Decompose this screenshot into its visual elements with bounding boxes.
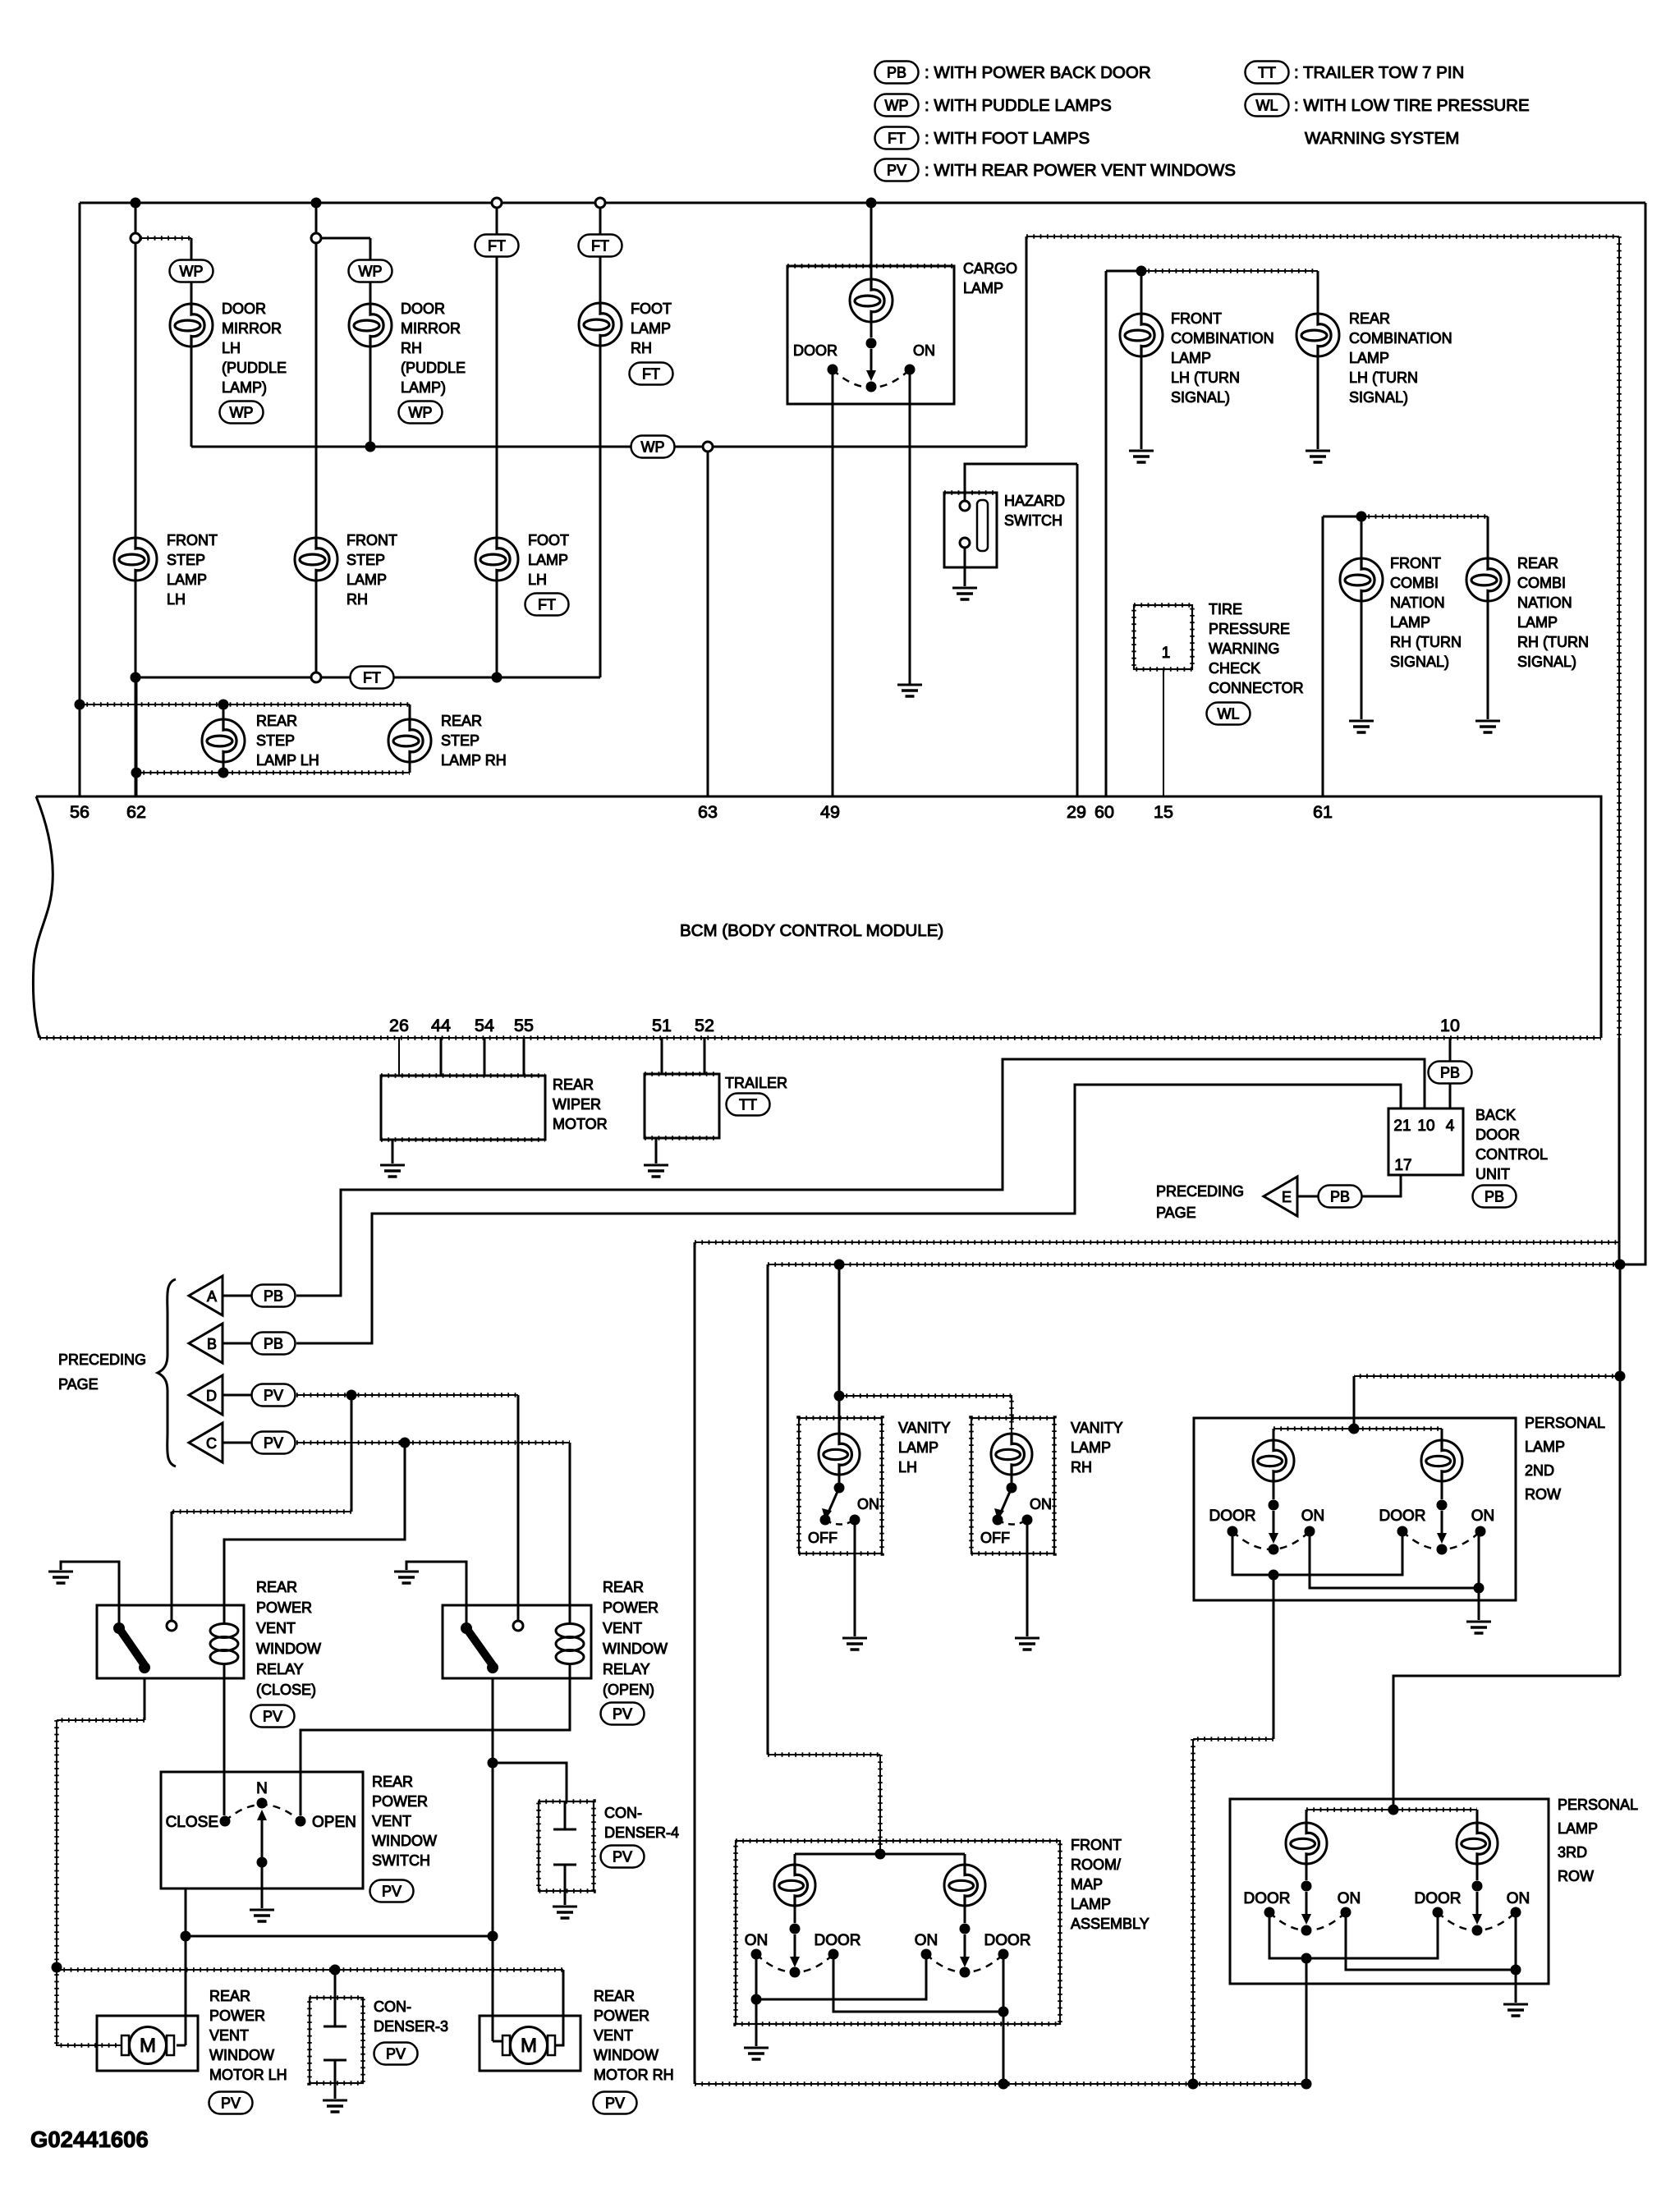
junction top bus x165	[131, 198, 141, 209]
arc 2nd left	[1232, 1531, 1310, 1549]
lamp front combination RH	[1340, 558, 1383, 601]
wire front step RH lower	[315, 581, 318, 672]
svg-text:(CLOSE): (CLOSE)	[256, 1682, 316, 1698]
svg-text:REAR: REAR	[256, 1579, 297, 1595]
ground front comb LH	[1129, 451, 1154, 462]
label vanity RH OFF	[980, 1530, 1010, 1546]
junction front room DOOR rail	[998, 2079, 1009, 2090]
svg-text:DOOR: DOOR	[815, 1932, 861, 1949]
junction rear step bottom LH	[218, 768, 229, 778]
ground trailer	[644, 1165, 668, 1177]
ground vanity RH	[1015, 1638, 1039, 1650]
contact N	[257, 1798, 268, 1809]
legend text with power back door	[925, 63, 1151, 82]
junction 2nd DOOR out	[1269, 1570, 1279, 1581]
svg-text:REAR: REAR	[372, 1774, 413, 1790]
svg-text:RH: RH	[1071, 1459, 1092, 1475]
svg-text:CON-: CON-	[604, 1805, 642, 1821]
wire D rail	[296, 1394, 518, 1396]
pin 56 BCM top	[70, 802, 89, 822]
svg-text:RH: RH	[346, 591, 368, 608]
junction vanity split	[834, 1391, 845, 1402]
wire BCM stubs to wiper	[399, 1038, 524, 1076]
wire stub down to WP oval LH	[190, 238, 193, 260]
svg-text:44: 44	[431, 1016, 451, 1035]
wire WP rail riser	[1026, 236, 1619, 447]
oval WP door mirror RH wire	[349, 260, 392, 282]
motor rear power vent window LH	[97, 2016, 198, 2071]
pin 10 BCM bottom	[1440, 1016, 1460, 1035]
svg-text:D: D	[206, 1388, 217, 1404]
wire front step RH vertical upper	[315, 203, 318, 538]
pin 29 BCM top	[1067, 802, 1086, 822]
pin 17 back door unit	[1394, 1157, 1411, 1174]
ground cargo ON	[897, 685, 922, 696]
wire WP oval to lamp LH	[190, 282, 193, 305]
wire left lamp bus	[694, 1242, 696, 2084]
lamp rear combination RH	[1466, 558, 1509, 601]
svg-text:LAMP: LAMP	[1349, 350, 1389, 366]
oval PB pin10	[1429, 1062, 1472, 1084]
wire PB to E triangle	[1298, 1195, 1318, 1198]
svg-text:51: 51	[652, 1016, 672, 1035]
ground front room	[744, 2048, 769, 2059]
wire BCM stubs to trailer	[662, 1038, 704, 1074]
label front room ON right	[915, 1932, 938, 1949]
box rear power vent window relay open	[443, 1605, 591, 1678]
button hazard	[977, 500, 988, 551]
svg-text:PV: PV	[263, 1709, 282, 1725]
contact 2nd DOOR left	[1228, 1526, 1238, 1537]
connector WP rail	[703, 442, 713, 452]
svg-text:PERSONAL: PERSONAL	[1525, 1415, 1605, 1431]
wire hazard to pin29	[1076, 464, 1079, 796]
arrow 2nd left	[1269, 1511, 1278, 1544]
ground open relay	[394, 1572, 419, 1583]
label rear step lamp RH	[441, 713, 507, 769]
box personal lamp 2nd row	[1194, 1418, 1516, 1600]
oval TT trailer	[727, 1094, 770, 1116]
wire front room DOOR out	[1003, 2012, 1005, 2084]
coil open relay	[556, 1624, 584, 1664]
oval PV motor RH	[594, 2092, 637, 2114]
wire motor cross rail	[186, 1935, 493, 1938]
svg-text:C: C	[206, 1435, 217, 1452]
ground vent switch	[250, 1910, 274, 1921]
arrow 2nd right	[1437, 1511, 1447, 1544]
oval WP door mirror LH label	[220, 402, 264, 424]
svg-text:LH: LH	[528, 571, 547, 588]
svg-text:RH (TURN: RH (TURN	[1390, 634, 1462, 650]
contact front room ON left	[751, 1949, 762, 1960]
svg-text:3RD: 3RD	[1558, 1844, 1587, 1861]
pin hazard bottom	[960, 538, 970, 548]
svg-text:FT: FT	[888, 131, 906, 147]
contact CLOSE	[220, 1816, 231, 1827]
svg-text:DENSER-4: DENSER-4	[604, 1824, 679, 1841]
wire dotted right-side drop	[1618, 236, 1620, 1264]
legend text with foot lamps	[925, 129, 1090, 148]
svg-text:WARNING: WARNING	[1209, 640, 1279, 657]
pin 15 BCM top	[1154, 802, 1173, 822]
label preceding page right	[1156, 1183, 1244, 1221]
junction top bus cargo	[866, 198, 877, 209]
svg-text:SIGNAL): SIGNAL)	[1171, 389, 1230, 406]
svg-text:DOOR: DOOR	[1209, 1508, 1256, 1525]
svg-text:WINDOW: WINDOW	[209, 2047, 274, 2063]
wire pin63 drop	[707, 452, 709, 796]
lamp rear step RH	[388, 719, 431, 762]
connector on top bus x731	[595, 198, 605, 208]
svg-text:10: 10	[1440, 1016, 1460, 1035]
pin 49 BCM top	[820, 802, 840, 822]
ground front comb RH	[1349, 721, 1374, 732]
svg-text:VANITY: VANITY	[1071, 1420, 1123, 1436]
wire foot lamp RH to FT rail	[599, 346, 602, 677]
wire 3rd right stems	[1476, 1810, 1479, 1880]
svg-text:B: B	[207, 1336, 217, 1352]
wire cargo feed	[870, 203, 873, 279]
svg-text:: WITH LOW TIRE PRESSURE: : WITH LOW TIRE PRESSURE	[1294, 96, 1530, 115]
wire personal 3rd feed	[1393, 1676, 1620, 1810]
svg-text:SWITCH: SWITCH	[372, 1852, 430, 1869]
wire motor RH left link	[493, 2040, 502, 2043]
svg-text:(PUDDLE: (PUDDLE	[222, 360, 287, 376]
svg-text:WL: WL	[1256, 98, 1278, 114]
label motor LH	[209, 1988, 287, 2083]
svg-text:FT: FT	[538, 597, 556, 613]
wire trailer ground stem	[655, 1138, 658, 1163]
contact 3rd ON left	[1341, 1907, 1351, 1918]
contact 2nd ON right	[1475, 1526, 1486, 1537]
svg-text:VENT: VENT	[603, 1620, 642, 1636]
contact front room DOOR right	[998, 1949, 1009, 1960]
svg-text:OPEN: OPEN	[312, 1814, 356, 1831]
svg-text:TT: TT	[739, 1097, 757, 1113]
svg-text:POWER: POWER	[603, 1599, 659, 1616]
label rear power vent window switch	[372, 1774, 437, 1869]
contact open relay common	[461, 1622, 472, 1634]
legend text with rear power vent windows	[925, 161, 1236, 180]
wire vanity LH bulb to pivot	[838, 1474, 841, 1484]
wire open relay ground link	[406, 1562, 466, 1628]
svg-text:LAMP: LAMP	[1390, 614, 1430, 631]
wire condenser4 tap	[493, 1763, 567, 1801]
pin open relay switched	[513, 1621, 523, 1631]
svg-text:LAMP RH: LAMP RH	[441, 752, 507, 769]
wire B to oval	[223, 1342, 251, 1345]
wire 3rd ON link	[1346, 1912, 1516, 1970]
svg-text:POWER: POWER	[256, 1599, 312, 1616]
wire front room right stems	[964, 1854, 966, 1923]
svg-text:55: 55	[514, 1016, 534, 1035]
pin vent switch bottom	[185, 1888, 187, 1936]
label condenser 4	[604, 1805, 679, 1841]
terminal B preceding page	[189, 1324, 223, 1363]
wire front room ON ground stem	[755, 1999, 758, 2046]
svg-text:(OPEN): (OPEN)	[603, 1682, 654, 1698]
arc vanity LH	[825, 1520, 855, 1525]
contact 2nd common right	[1437, 1544, 1448, 1555]
svg-text:LAMP: LAMP	[898, 1439, 938, 1456]
wire 2nd right stems	[1441, 1429, 1443, 1499]
svg-text:STEP: STEP	[167, 552, 205, 568]
svg-text:: TRAILER TOW 7 PIN: : TRAILER TOW 7 PIN	[1294, 63, 1464, 82]
svg-text:17: 17	[1394, 1157, 1411, 1174]
svg-text:PV: PV	[264, 1435, 283, 1452]
contact 3rd common left	[1301, 1925, 1312, 1936]
svg-text:M: M	[521, 2035, 537, 2057]
svg-text:POWER: POWER	[594, 2008, 649, 2024]
capacitor condenser 3	[324, 1970, 346, 2083]
arc 3rd left	[1269, 1912, 1346, 1930]
junction front room ON out	[751, 1994, 762, 2005]
svg-text:PERSONAL: PERSONAL	[1558, 1797, 1638, 1813]
wire close relay ground link	[61, 1562, 119, 1628]
pin 63 BCM top	[698, 802, 718, 822]
svg-text:DOOR: DOOR	[1244, 1890, 1291, 1907]
label personal lamp 2nd row	[1525, 1415, 1605, 1503]
svg-text:CONNECTOR: CONNECTOR	[1209, 680, 1304, 696]
box hazard switch	[944, 493, 997, 567]
wire 3rd DOOR out	[1306, 1958, 1308, 2084]
wire close coil bottom to switch	[223, 1664, 226, 1815]
junction open output condenser4	[488, 1758, 498, 1769]
oval PV close relay	[251, 1705, 295, 1728]
svg-text:VENT: VENT	[372, 1813, 411, 1829]
svg-text:FT: FT	[591, 238, 609, 255]
lamp personal 2nd left	[1253, 1440, 1294, 1481]
lamp front step RH	[295, 538, 337, 581]
svg-text:PRECEDING: PRECEDING	[58, 1352, 146, 1368]
svg-text:PV: PV	[264, 1388, 283, 1404]
svg-text:LAMP: LAMP	[346, 571, 387, 588]
contact 3rd ON right	[1511, 1907, 1521, 1918]
contact cargo ON	[905, 365, 916, 375]
wire cargo bulb to pivot	[870, 322, 873, 337]
svg-text:ON: ON	[1507, 1890, 1530, 1907]
label rear combination RH	[1517, 555, 1589, 670]
legend oval WP	[875, 94, 919, 117]
svg-text:LAMP: LAMP	[963, 280, 1003, 296]
svg-text:WINDOW: WINDOW	[256, 1641, 321, 1657]
oval FT foot lamp RH wire	[579, 235, 622, 257]
wire pin62 drop	[135, 677, 138, 796]
wire vanity RH branch	[839, 1396, 1012, 1434]
label front room DOOR left	[815, 1932, 861, 1949]
wire 3rd left stems	[1306, 1810, 1308, 1880]
svg-text:ASSEMBLY: ASSEMBLY	[1071, 1916, 1150, 1932]
oval PV motor LH	[209, 2092, 253, 2114]
wire BCM pin10 to PB oval	[1449, 1038, 1452, 1062]
wire connector stub RH	[321, 237, 370, 240]
svg-text:ON: ON	[857, 1496, 879, 1512]
label vanity lamp LH	[898, 1420, 951, 1475]
label front room ON left	[745, 1932, 769, 1949]
pin 21 back door unit	[1393, 1117, 1411, 1135]
svg-text:LAMP: LAMP	[631, 320, 671, 337]
contact 2nd DOOR right	[1397, 1526, 1408, 1537]
oval FT on rail	[351, 667, 394, 689]
svg-text:PB: PB	[1485, 1189, 1504, 1205]
junction C rail	[400, 1438, 411, 1448]
wire left bus to BCM pin 56	[79, 203, 81, 796]
connector on top bus x605	[492, 198, 502, 208]
lamp vanity LH	[819, 1434, 860, 1475]
svg-text:LAMP: LAMP	[1517, 614, 1558, 631]
svg-text:LAMP: LAMP	[528, 552, 568, 568]
wire door mirror RH to WP rail	[369, 346, 372, 447]
svg-text:REAR: REAR	[603, 1579, 644, 1595]
arm vanity LH switch	[822, 1488, 839, 1520]
wire rear step bottom rail	[136, 772, 410, 773]
wire personal 2nd feed	[1354, 1376, 1620, 1429]
svg-text:OFF: OFF	[808, 1530, 837, 1546]
svg-text:LH: LH	[222, 340, 241, 356]
arrow front room right	[960, 1934, 970, 1967]
wire unit pin21 to B	[296, 1085, 1401, 1343]
svg-text:CONTROL: CONTROL	[1475, 1146, 1548, 1163]
svg-text:RH: RH	[631, 340, 652, 356]
wire front room DOOR link	[833, 1954, 1003, 2012]
svg-text:WP: WP	[641, 439, 665, 456]
lamp front room right	[944, 1865, 985, 1906]
svg-text:FRONT: FRONT	[1171, 310, 1222, 327]
label front combination LH	[1171, 310, 1274, 406]
junction 2nd row feed	[1349, 1424, 1360, 1434]
wire door mirror LH to WP rail	[190, 346, 193, 447]
wire 3rd row top rail	[1306, 1809, 1477, 1810]
contact front room DOOR left	[828, 1949, 839, 1960]
svg-text:CARGO: CARGO	[963, 260, 1017, 277]
junction open output motor rail	[488, 1931, 498, 1942]
svg-text:ON: ON	[1301, 1508, 1325, 1525]
junction switch pin rail	[181, 1931, 191, 1942]
junction bottom rail 2nd row	[1188, 2079, 1199, 2090]
label 3rd ON left	[1338, 1890, 1361, 1907]
pin 26 BCM bottom	[389, 1016, 409, 1035]
ground condenser 3	[323, 2100, 347, 2112]
contact open relay arm end	[487, 1662, 498, 1673]
svg-text:DOOR: DOOR	[401, 301, 445, 317]
wire top power bus	[80, 202, 1645, 204]
label front room map lamp assembly	[1071, 1837, 1150, 1932]
svg-text:MOTOR RH: MOTOR RH	[594, 2067, 674, 2083]
coil close relay	[210, 1624, 238, 1664]
ground hazard	[952, 588, 977, 599]
junction left rail	[52, 1962, 62, 1973]
svg-text:G02441606: G02441606	[30, 2127, 149, 2152]
contact 2nd common left	[1269, 1544, 1279, 1555]
svg-text:LAMP): LAMP)	[222, 379, 267, 396]
svg-text:MIRROR: MIRROR	[401, 320, 461, 337]
svg-text:SIGNAL): SIGNAL)	[1517, 654, 1576, 670]
contact vanity LH ON	[850, 1515, 860, 1526]
lamp rear combination LH	[1296, 314, 1339, 356]
oval FT foot lamp LH wire	[475, 235, 519, 257]
legend oval PB	[875, 62, 919, 84]
arc 3rd right	[1438, 1912, 1516, 1930]
svg-text:61: 61	[1313, 802, 1333, 822]
junction rear step rail left	[75, 700, 85, 710]
arc cargo switch	[833, 369, 910, 388]
wire close output down left side	[56, 1720, 57, 1967]
label rear power vent window relay open	[603, 1579, 668, 1698]
contact 3rd DOOR left	[1264, 1907, 1275, 1918]
wire D to open relay	[517, 1395, 520, 1621]
svg-text:REAR: REAR	[594, 1988, 635, 2004]
contact close relay common	[113, 1622, 125, 1634]
svg-text:: WITH FOOT LAMPS: : WITH FOOT LAMPS	[925, 129, 1090, 148]
wire rear step top rail	[80, 704, 410, 705]
arc vent switch	[225, 1805, 301, 1821]
pin 54 BCM bottom	[475, 1016, 494, 1035]
wire rail to A-line	[695, 1241, 1620, 1243]
lamp front step LH	[114, 538, 157, 581]
contact front room ON right	[921, 1949, 932, 1960]
wire close arm output	[57, 1678, 145, 1720]
box condenser 4	[539, 1801, 594, 1891]
svg-text:PAGE: PAGE	[1156, 1205, 1196, 1221]
label BCM	[680, 921, 943, 940]
svg-text:DOOR: DOOR	[1415, 1890, 1462, 1907]
label front room DOOR right	[984, 1932, 1031, 1949]
junction 2nd left pivot	[1269, 1500, 1279, 1511]
wire open coil bottom to switch	[301, 1664, 570, 1815]
wire vanity LH drop	[838, 1264, 841, 1434]
oval PB back door unit label	[1473, 1186, 1517, 1208]
wire switch pin to motor LH right	[185, 1936, 187, 2045]
svg-text:WARNING SYSTEM: WARNING SYSTEM	[1305, 129, 1459, 148]
label N switch	[256, 1780, 268, 1797]
svg-text:PAGE: PAGE	[58, 1376, 99, 1393]
svg-text:15: 15	[1154, 802, 1173, 822]
svg-text:LH: LH	[898, 1459, 917, 1475]
wire FT rail	[135, 677, 600, 679]
wire D drop to close relay	[172, 1395, 351, 1621]
wire right bus down	[1620, 203, 1645, 1264]
pin 52 BCM bottom	[695, 1016, 714, 1035]
junction 2nd right pivot	[1437, 1500, 1448, 1511]
svg-text:RELAY: RELAY	[603, 1661, 650, 1677]
wire PB oval to unit pin4	[1449, 1084, 1452, 1108]
ground condenser 4	[553, 1907, 577, 1918]
oval WP door mirror RH label	[399, 402, 443, 424]
lamp door mirror RH	[349, 304, 392, 346]
svg-text:VANITY: VANITY	[898, 1420, 951, 1436]
label cargo DOOR	[793, 342, 837, 359]
brace preceding page	[158, 1279, 176, 1466]
box rear wiper motor	[381, 1076, 545, 1140]
svg-text:WINDOW: WINDOW	[372, 1833, 437, 1849]
label front combination RH	[1390, 555, 1462, 670]
legend oval TT	[1246, 62, 1289, 84]
wire 2nd ON link	[1310, 1531, 1479, 1588]
svg-text:REAR: REAR	[1349, 310, 1390, 327]
junction D rail	[346, 1390, 357, 1401]
arrow front room left	[790, 1934, 800, 1967]
contact cargo common	[866, 382, 877, 392]
lamp front room left	[774, 1865, 815, 1906]
label figure id	[30, 2127, 149, 2152]
wire C rail	[296, 1442, 570, 1443]
junction 3rd ON out	[1511, 1965, 1521, 1976]
wire front room drop	[768, 1264, 880, 1854]
wire front room top rail	[795, 1853, 965, 1856]
wire rear comb LH stems	[1317, 271, 1319, 449]
svg-text:LAMP: LAMP	[1558, 1820, 1598, 1837]
wire hazard feed	[965, 464, 1077, 501]
